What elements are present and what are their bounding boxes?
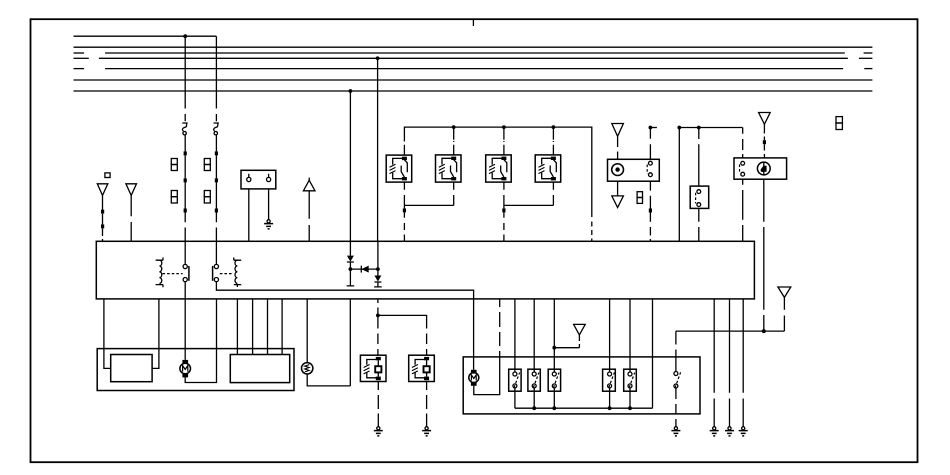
node F <box>552 125 556 129</box>
bus line B5 y68.6 <box>74 68 85 70</box>
shield triangle above motor U2 <box>612 124 624 137</box>
relay RL2 contact <box>215 241 217 264</box>
wire MT2 loop up <box>474 357 500 395</box>
bus line B4 y58 <box>74 57 89 59</box>
wire ECU to ground G7 <box>742 299 744 427</box>
wire bus B7 to ECU <box>349 91 351 241</box>
wire ECU to ground G5 <box>713 299 715 427</box>
marker <box>763 140 766 144</box>
node K <box>532 406 536 410</box>
marker node A b <box>101 224 104 228</box>
node D <box>452 125 456 129</box>
wire node I to switch box <box>698 128 700 187</box>
ground G6 <box>728 427 731 430</box>
wire M1 below to ECU <box>403 182 405 208</box>
wire NF2 to ground <box>426 382 428 427</box>
contact pin b <box>268 174 270 178</box>
horn H1 <box>757 162 770 175</box>
node M <box>608 406 612 410</box>
motor U2 <box>612 164 624 176</box>
wire M3 below to ECU <box>503 182 505 208</box>
shield triangle below U2 <box>612 196 624 208</box>
door lock actuator M2 <box>436 155 462 182</box>
wires ECU to rect2 pins <box>237 299 282 355</box>
node J <box>376 314 380 318</box>
node I <box>697 126 701 130</box>
ground G7 <box>742 427 745 430</box>
node O <box>552 346 556 350</box>
motor unit U2 box <box>608 159 660 181</box>
marker chain2 b <box>215 178 218 182</box>
relay K1 contact box <box>241 170 276 189</box>
relay RL2 coil <box>234 258 241 288</box>
wire ECU to ground G6 <box>729 299 731 427</box>
wire chain2 upper (corner from bus B1) <box>215 36 217 121</box>
door lock actuator M4 <box>535 155 561 182</box>
op ECU main box U1 <box>96 241 754 299</box>
wire NF1 to ground <box>377 382 379 427</box>
shield triangle above horn <box>759 113 771 125</box>
wire to actuator M2 <box>453 127 455 155</box>
connector J2 squares <box>171 191 177 197</box>
wire node H to ECU <box>678 128 680 242</box>
diode D3 <box>377 241 379 275</box>
wire <box>184 155 186 178</box>
node C feed triangle (up) <box>308 178 310 181</box>
wire node J to filter NF1 <box>377 315 379 355</box>
tick on top border <box>472 19 474 26</box>
bus line B2 y47 <box>74 46 873 48</box>
horn unit U3 box <box>734 158 787 179</box>
wire chain2 to ECU <box>215 213 217 242</box>
wire node A to ECU <box>102 195 104 241</box>
switch SW5 <box>528 369 540 391</box>
switch SW8 <box>624 369 637 391</box>
lamp L1 wire from ECU <box>306 299 308 363</box>
node D1/D2 <box>349 267 353 271</box>
wires ECU to switch tops <box>515 299 630 372</box>
wire triangle to horn box <box>763 124 765 140</box>
switch SW1 in U2 <box>649 161 653 165</box>
wire RL1 contact to motor MT1 <box>184 299 186 360</box>
wire chain1 mid <box>184 135 186 152</box>
wire <box>215 155 217 178</box>
wire chain2 mid <box>215 135 217 152</box>
ground G1 <box>267 220 270 223</box>
switch SW9 <box>675 331 677 371</box>
relay RL1 coil <box>156 258 163 288</box>
wires switch bottoms to internal bus <box>515 388 630 408</box>
node bus B4 junction <box>376 56 380 60</box>
wire SW2 to ECU <box>698 208 700 241</box>
wire K1 pin a to ECU <box>248 189 250 241</box>
marker chain2 c <box>215 209 218 213</box>
wire node C to ECU <box>308 191 310 242</box>
wire node B to ECU <box>130 195 132 241</box>
wire MT2 loop dashed to ECU <box>499 299 501 357</box>
circuit breaker CB2 <box>214 123 219 131</box>
regulator box (bottom-left) <box>97 349 294 391</box>
wire door-lock bus <box>404 127 591 217</box>
wire diode D3 branch below ECU <box>377 299 379 316</box>
bus line B7 y91 <box>74 90 873 92</box>
node bus B7 junction <box>349 89 353 93</box>
node bus B1/chain1 junction <box>183 34 187 38</box>
bus line B6 y80 <box>74 79 873 81</box>
wire chain1 upper <box>184 36 186 121</box>
node A shield triangle <box>97 184 108 196</box>
marker <box>649 209 652 213</box>
relay RL2 link <box>220 273 233 275</box>
connector J4 squares <box>204 191 210 197</box>
noise filter NF2 <box>409 355 435 381</box>
node L <box>552 406 556 410</box>
diode D1 <box>349 241 351 255</box>
circuit breaker CB1 <box>182 123 187 131</box>
shield triangle bottom right <box>778 287 791 297</box>
marker chain1 a <box>184 151 187 155</box>
switch SW6 <box>548 369 560 391</box>
contact SW3 in U3 <box>741 161 745 165</box>
door lock actuator M1 <box>386 155 412 182</box>
connector J5 squares <box>637 192 642 198</box>
connector J6 squares <box>836 117 842 123</box>
marker <box>403 208 406 212</box>
wire M4 jog <box>504 182 554 205</box>
wire triangle to SW6 line <box>554 335 579 348</box>
wire to actuator M3 <box>503 127 505 155</box>
wire triangle to motor box <box>617 136 619 159</box>
wire U2 motor to lower triangle <box>617 181 619 196</box>
shield triangle mid-bottom <box>574 324 586 335</box>
wire chain1 to ECU <box>184 213 186 242</box>
wire MT1 loop to ECU <box>185 299 216 383</box>
wire L1 loop to ECU <box>307 299 350 386</box>
motor MT1 <box>180 360 191 378</box>
contact pin a <box>248 174 250 178</box>
node E <box>502 125 506 129</box>
wire <box>215 182 217 208</box>
marker node A a <box>101 210 104 214</box>
ground G4 <box>674 427 677 430</box>
wire SW9 to ground <box>675 388 677 427</box>
wire <box>184 182 186 208</box>
switch SW2 box <box>690 186 709 208</box>
wire node G down to motor box <box>649 128 651 160</box>
wire M2 jog <box>404 182 453 205</box>
wire horn down <box>763 179 765 331</box>
wire internal run to motor MT2 <box>473 299 475 370</box>
connector square S1 <box>105 173 110 178</box>
wire RL2 to internal run <box>216 282 473 299</box>
diode D2 (horizontal) <box>350 268 378 270</box>
marker chain1 b <box>184 178 187 182</box>
wire node J branch right <box>378 315 427 355</box>
wire ECU pin to rect1 right <box>152 299 159 369</box>
relay RL1 contact <box>184 241 186 264</box>
node H <box>677 126 681 130</box>
wire segment B corner to horn relay <box>742 128 744 158</box>
inner unit rect2 <box>230 355 289 383</box>
ground G5 <box>713 427 716 430</box>
ground G3 <box>425 427 428 430</box>
door lock actuator M3 <box>486 155 512 182</box>
marker chain1 c <box>184 209 187 213</box>
node P <box>762 329 766 333</box>
node B shield triangle <box>126 184 137 196</box>
connector J3 squares <box>204 159 210 165</box>
node N <box>628 406 632 410</box>
switch SW4 <box>509 369 521 391</box>
marker <box>502 208 505 212</box>
wire segment A y127 <box>650 127 657 129</box>
switch SW7 <box>603 369 616 391</box>
wire bus B4 to ECU <box>377 58 379 241</box>
ground G2 <box>377 427 380 430</box>
wire K1 pin b down <box>268 189 270 220</box>
wire to actuator M1 <box>403 140 405 155</box>
wire U3 left pin to ECU <box>742 179 744 241</box>
node G <box>649 126 653 130</box>
wire triangle to node P run <box>783 297 785 331</box>
wire segment B y127 <box>679 127 742 129</box>
bus line B1 y36 <box>74 35 217 37</box>
inner unit rect1 <box>111 355 152 382</box>
noise filter NF1 <box>360 355 386 381</box>
motor MT2 <box>469 370 479 386</box>
wire horn line junction run y331 <box>676 330 785 332</box>
connector J1 squares <box>171 159 177 165</box>
lamp L1 <box>302 363 313 374</box>
switch unit box (bottom center) <box>463 357 700 414</box>
relay RL1 link <box>163 273 183 275</box>
wire ECU pin to rect1 left <box>104 299 111 369</box>
marker chain2 a <box>215 151 218 155</box>
wire internal bus <box>515 299 653 408</box>
wire SW1 to ECU <box>649 181 651 208</box>
bus line B3 y53 <box>74 52 85 54</box>
wire to actuator M4 <box>552 127 554 155</box>
